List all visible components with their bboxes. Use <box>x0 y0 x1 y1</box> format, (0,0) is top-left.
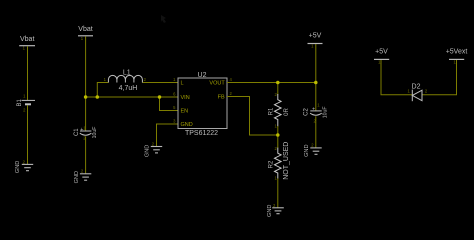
svg-text:10uF: 10uF <box>92 127 98 139</box>
cursor artifact <box>161 15 166 23</box>
wire Vbat to battery B1 <box>27 46 29 100</box>
svg-text:GND: GND <box>181 122 193 128</box>
svg-text:B1: B1 <box>17 98 23 106</box>
wire VOUT net <box>227 82 316 84</box>
svg-text:+5V: +5V <box>309 33 322 40</box>
resistor R1 <box>268 92 290 128</box>
junction dot L1 tee <box>96 95 100 99</box>
svg-text:+5V: +5V <box>375 49 388 56</box>
battery B1 <box>17 93 35 112</box>
svg-text:GND: GND <box>304 144 310 156</box>
wire diode to +5Vext <box>422 60 457 95</box>
wire C1 drop <box>85 97 87 131</box>
power port +5V (diode branch) <box>374 49 389 65</box>
svg-text:10uF: 10uF <box>322 106 328 118</box>
svg-text:TPS61222: TPS61222 <box>185 130 218 137</box>
ground GND (IC) <box>144 141 162 157</box>
junction dot C1 tee <box>84 95 88 99</box>
svg-text:GND: GND <box>74 171 80 183</box>
svg-text:U2: U2 <box>198 72 207 79</box>
svg-text:0R: 0R <box>284 107 290 115</box>
power port Vbat (left, B1 branch) <box>19 36 35 51</box>
ground GND (C2) <box>304 142 322 157</box>
wire +5V riser <box>315 44 317 83</box>
svg-text:NOT_USED: NOT_USED <box>283 142 290 180</box>
wire R2 top <box>277 135 279 148</box>
power port Vbat (second) <box>78 26 93 41</box>
svg-text:+: + <box>312 106 315 112</box>
junction dot FB/R1/R2 <box>276 133 280 137</box>
svg-text:+5Vext: +5Vext <box>446 49 468 56</box>
ground GND (C1) <box>74 169 91 184</box>
svg-text:R1: R1 <box>268 107 274 115</box>
wire C1 to GND <box>85 136 87 173</box>
svg-text:FB: FB <box>218 95 225 101</box>
svg-text:D2: D2 <box>412 84 421 91</box>
ground GND (R2) <box>267 203 284 217</box>
junction dot EN tee <box>158 95 162 99</box>
wire C2 drop <box>315 83 317 111</box>
capacitor C1 <box>74 126 98 141</box>
power port +5V <box>308 33 323 49</box>
wire L1 right to pin L <box>142 82 178 84</box>
wire EN <box>160 97 179 111</box>
wire R1 bottom <box>277 126 279 135</box>
resistor R2 <box>268 142 290 181</box>
svg-text:R2: R2 <box>268 160 274 168</box>
wire R2 to GND <box>277 178 279 207</box>
svg-text:Vbat: Vbat <box>78 26 92 33</box>
wire L1 branch riser <box>97 83 108 98</box>
wire IC GND pin <box>157 124 179 146</box>
capacitor C2 <box>304 103 329 124</box>
svg-text:EN: EN <box>181 109 189 115</box>
svg-text:L1: L1 <box>123 69 131 76</box>
svg-text:C2: C2 <box>304 108 310 116</box>
svg-text:Vbat: Vbat <box>20 36 34 43</box>
wire C2 to GND <box>315 116 317 147</box>
inductor L1 <box>104 69 147 92</box>
ground GND (B1 branch) <box>15 159 33 173</box>
junction dot R1 tee <box>276 81 280 85</box>
wire FB net <box>227 97 278 136</box>
wire +5V to diode <box>381 60 412 95</box>
wire VIN net horizontal <box>86 96 178 98</box>
svg-text:VIN: VIN <box>181 95 190 101</box>
power port +5Vext <box>446 49 468 65</box>
op-amp/IC U2 TPS61222 <box>173 72 232 137</box>
svg-text:4,7uH: 4,7uH <box>119 85 138 92</box>
diode D2 <box>407 84 427 102</box>
svg-text:VOUT: VOUT <box>209 81 225 87</box>
junction dot +5V/C2 tee <box>314 81 318 85</box>
svg-text:L: L <box>181 81 184 87</box>
wire Vbat riser <box>85 36 87 97</box>
svg-text:GND: GND <box>15 161 21 173</box>
svg-text:GND: GND <box>144 145 150 157</box>
wire R1 top <box>277 83 279 95</box>
wire battery B1 to GND <box>27 105 29 164</box>
